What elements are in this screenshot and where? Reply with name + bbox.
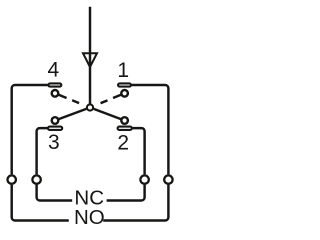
svg-text:1: 1 xyxy=(117,59,129,82)
wire link to contact 2 xyxy=(94,109,125,121)
contact 2 pad xyxy=(118,127,132,130)
wire terminal 4 to NO rail left xyxy=(12,85,48,174)
wire terminal 3 to NC rail left xyxy=(37,128,48,174)
wire NC rail right xyxy=(107,185,145,201)
contact 1 xyxy=(121,90,128,97)
terminal lug NC left xyxy=(32,175,40,183)
svg-text:3: 3 xyxy=(48,131,60,154)
common pole node xyxy=(87,104,93,110)
wire terminal 2 to NC rail right xyxy=(132,128,144,174)
contact 1 pad xyxy=(118,83,131,86)
wire NO rail left xyxy=(12,185,69,221)
wire dashed link to contact 1 xyxy=(94,93,125,106)
contact 3 xyxy=(52,117,59,124)
actuator arrow xyxy=(83,53,97,67)
terminal lug NC right xyxy=(140,175,148,183)
svg-text:4: 4 xyxy=(47,59,59,82)
terminal lug NO right xyxy=(164,175,172,183)
svg-text:2: 2 xyxy=(117,131,129,154)
wire actuator stem xyxy=(89,7,91,104)
wire link to contact 3 xyxy=(55,109,86,121)
contact 3 pad xyxy=(48,127,62,130)
wire dashed link to contact 4 xyxy=(55,93,86,106)
contact 4 pad xyxy=(48,83,61,86)
terminal lug NO left xyxy=(8,175,16,183)
contact 4 xyxy=(52,90,59,97)
contact 2 xyxy=(121,117,128,124)
svg-text:NO: NO xyxy=(74,206,105,229)
wire NC rail left xyxy=(37,185,73,201)
wire terminal 1 to NO rail right xyxy=(132,85,169,174)
wire NO rail right xyxy=(103,185,168,221)
